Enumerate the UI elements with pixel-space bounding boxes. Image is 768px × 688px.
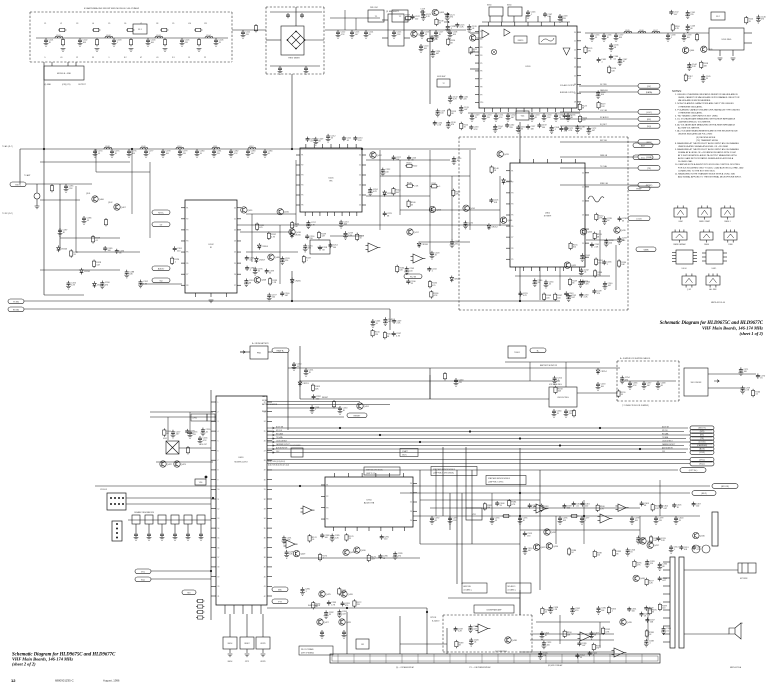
svg-text:4: 4 xyxy=(218,431,219,433)
capacitor C333 xyxy=(645,559,656,567)
svg-text:Q438: Q438 xyxy=(512,640,518,642)
wire xyxy=(246,649,248,653)
svg-text:220: 220 xyxy=(414,166,417,168)
resistor R127 xyxy=(70,249,79,257)
svg-text:C8: C8 xyxy=(156,23,158,25)
svg-text:15: 15 xyxy=(218,538,220,540)
svg-text:SPI CLK: SPI CLK xyxy=(662,430,668,432)
svg-text:TO RX (J1-7): TO RX (J1-7) xyxy=(2,213,13,215)
capacitor C114 xyxy=(364,30,375,38)
svg-text:P6: P6 xyxy=(186,263,188,265)
transistor Q423 xyxy=(174,461,187,467)
capacitor C171 xyxy=(564,126,574,132)
svg-text:.047: .047 xyxy=(647,385,651,387)
svg-text:470: 470 xyxy=(259,227,262,229)
package legend DIP U6 xyxy=(672,250,697,270)
svg-text:Q408: Q408 xyxy=(261,280,267,282)
capacitor C142 xyxy=(669,10,679,16)
capacitor C149 xyxy=(470,113,481,121)
svg-text:68: 68 xyxy=(450,42,452,44)
capacitor C107 xyxy=(286,13,290,18)
component block Y2 xyxy=(437,79,450,87)
svg-text:68: 68 xyxy=(387,215,389,217)
svg-text:220: 220 xyxy=(510,127,513,129)
resistor R145 xyxy=(406,182,419,187)
svg-text:BUFFER OUTPUT: BUFFER OUTPUT xyxy=(560,92,576,94)
svg-text:P9: P9 xyxy=(511,259,513,261)
svg-text:.047: .047 xyxy=(342,613,346,615)
svg-text:470: 470 xyxy=(585,284,588,286)
svg-text:20: 20 xyxy=(359,155,361,157)
wire xyxy=(291,271,293,301)
resistor R158 xyxy=(554,386,563,394)
capacitor C334 xyxy=(658,576,668,582)
diode CR207 xyxy=(255,257,266,264)
node (BD2) xyxy=(692,491,716,496)
ext jack xyxy=(738,563,756,573)
transistor Q426 xyxy=(341,591,354,597)
resistor R152 xyxy=(595,213,604,221)
wire mesh sheet2 left (interconnect mesh) xyxy=(150,412,213,462)
svg-text:CR209: CR209 xyxy=(454,279,461,281)
svg-text:.01: .01 xyxy=(297,366,300,368)
svg-text:68: 68 xyxy=(662,566,664,568)
capacitor C131 xyxy=(459,95,469,101)
wire junction dots xyxy=(43,148,641,613)
capacitor C215 xyxy=(303,244,314,252)
wire: bus TX DATA xyxy=(267,438,686,440)
svg-text:68: 68 xyxy=(322,249,324,251)
internal mixer circle xyxy=(491,49,496,54)
ground xyxy=(129,49,134,52)
resistor R130 xyxy=(291,221,300,229)
svg-text:FIRST MIXER: FIRST MIXER xyxy=(288,58,300,60)
resistor R160 xyxy=(186,446,189,454)
capacitor C278 xyxy=(320,630,325,638)
transistor Q412 xyxy=(370,152,383,158)
svg-text:P5: P5 xyxy=(511,215,513,217)
B+ jumper outline top xyxy=(617,360,679,362)
svg-text:P2: P2 xyxy=(186,219,188,221)
op-amp UU6 xyxy=(534,504,549,513)
U451 left pins xyxy=(211,402,247,598)
svg-text:.047: .047 xyxy=(582,645,586,647)
component block xyxy=(281,26,304,55)
sheet 1 title block xyxy=(660,321,764,336)
wire xyxy=(708,387,745,389)
svg-text:10. KEEP AS NOTE A SHUNT INTO: 10. KEEP AS NOTE A SHUNT INTO EXCLUDE CO… xyxy=(675,163,740,166)
svg-text:68: 68 xyxy=(387,336,389,338)
svg-text:.01: .01 xyxy=(249,260,252,262)
ground xyxy=(61,49,66,52)
component block xyxy=(184,515,192,524)
capacitor C299 xyxy=(654,516,665,524)
front-end module outline bottom xyxy=(30,61,232,63)
svg-text:20: 20 xyxy=(574,32,576,34)
svg-text:25: 25 xyxy=(234,263,236,265)
capacitor C297 xyxy=(580,516,591,524)
capacitor C328 xyxy=(548,605,559,613)
svg-text:KID: KID xyxy=(187,592,191,594)
svg-text:11: 11 xyxy=(218,499,220,501)
wire xyxy=(126,497,211,499)
svg-text:33: 33 xyxy=(630,552,632,554)
svg-text:U6 04: U6 04 xyxy=(682,268,687,270)
svg-text:68: 68 xyxy=(268,153,270,155)
resistor R108 xyxy=(435,18,444,26)
IC U201 RX BACK END xyxy=(296,144,366,216)
svg-text:.01: .01 xyxy=(549,284,552,286)
svg-text:U901 REG: U901 REG xyxy=(722,39,732,41)
capacitor C161 xyxy=(516,125,527,133)
capacitor C123 xyxy=(421,12,432,20)
svg-text:LOCK DETECT: LOCK DETECT xyxy=(662,440,673,442)
capacitor C118 xyxy=(448,30,459,38)
capacitor C230 xyxy=(532,278,543,286)
svg-text:100: 100 xyxy=(687,37,690,39)
capacitor C138 xyxy=(666,33,677,41)
svg-text:P7: P7 xyxy=(480,79,482,81)
component block xyxy=(132,515,140,524)
ground xyxy=(163,49,168,52)
svg-text:23: 23 xyxy=(574,58,576,60)
svg-text:470: 470 xyxy=(596,648,599,650)
svg-text:(CSX): (CSX) xyxy=(699,452,705,454)
connector strip P1 xyxy=(330,654,660,663)
capacitor C168 xyxy=(597,57,607,63)
svg-text:.047: .047 xyxy=(355,34,359,36)
svg-text:25: 25 xyxy=(574,75,576,77)
component block RESET xyxy=(240,637,254,649)
capacitor C113 xyxy=(350,30,361,38)
wire xyxy=(174,524,176,532)
svg-text:COL CNT: COL CNT xyxy=(200,444,207,446)
capacitor C182 xyxy=(229,149,240,157)
capacitor C167 xyxy=(617,57,628,65)
wire: bus SPI CLK xyxy=(267,431,684,433)
resistor R122 xyxy=(578,115,587,123)
svg-text:DEMOD: DEMOD xyxy=(518,40,525,42)
capacitor C108 xyxy=(300,13,304,18)
wire: bus VOL xyxy=(267,459,690,461)
RF section outline right xyxy=(627,137,629,310)
svg-text:470: 470 xyxy=(459,382,462,384)
svg-text:8.2: 8.2 xyxy=(124,57,127,59)
front-end component reference text xyxy=(44,23,207,59)
svg-text:MC68HC11-FL8: MC68HC11-FL8 xyxy=(235,462,248,464)
deemph title box xyxy=(474,605,514,613)
wire xyxy=(67,62,69,66)
svg-text:E1 ANTENNA VHF FRONT END MODU: E1 ANTENNA VHF FRONT END MODULE 146-174M… xyxy=(84,7,140,10)
svg-text:(TX) TRANSMIT MODE: (TX) TRANSMIT MODE xyxy=(696,139,719,142)
capacitor C292 xyxy=(430,516,441,524)
svg-text:470: 470 xyxy=(761,19,764,21)
svg-text:470: 470 xyxy=(185,42,188,44)
svg-text:100: 100 xyxy=(272,297,275,299)
svg-text:100: 100 xyxy=(542,127,545,129)
capacitor C153 xyxy=(530,113,541,121)
capacitor C296 xyxy=(558,516,569,524)
svg-text:Q415: Q415 xyxy=(504,154,510,156)
transistor Q410 xyxy=(277,209,290,215)
svg-text:CR213: CR213 xyxy=(302,383,309,385)
sheet 2 title block xyxy=(12,653,116,667)
svg-text:24: 24 xyxy=(359,195,361,197)
resistor R124 xyxy=(50,184,53,192)
svg-text:5. DC VOLTAGES ARE MEASURED W: 5. DC VOLTAGES ARE MEASURED WITH A HIGH … xyxy=(675,117,736,120)
svg-text:68: 68 xyxy=(597,236,599,238)
resistor R196 xyxy=(633,560,642,568)
resistor R136 xyxy=(430,290,439,298)
svg-text:B+ JUMPER FOR SHIPPED RADIOS: B+ JUMPER FOR SHIPPED RADIOS xyxy=(620,357,651,360)
node (OPT B+) xyxy=(680,468,706,473)
svg-text:.1: .1 xyxy=(607,264,609,266)
capacitor C320 xyxy=(469,638,480,646)
svg-text:Q439: Q439 xyxy=(627,622,633,624)
svg-text:25: 25 xyxy=(359,205,361,207)
capacitor C192 xyxy=(138,280,149,288)
svg-text:Y2: Y2 xyxy=(442,83,444,85)
svg-text:(sheet 2 of 2): (sheet 2 of 2) xyxy=(12,662,36,667)
svg-text:SQ DET: SQ DET xyxy=(600,124,608,126)
resistor R133 xyxy=(268,277,277,285)
capacitor C225 xyxy=(383,211,393,217)
svg-text:P9: P9 xyxy=(480,94,482,96)
diode CR213 xyxy=(298,380,309,387)
resistor R114 xyxy=(695,33,698,41)
capacitor C233 xyxy=(579,293,589,299)
svg-text:.1: .1 xyxy=(249,270,251,272)
svg-text:.01: .01 xyxy=(468,224,471,226)
capacitor C144 xyxy=(687,62,698,70)
transistor Q427 xyxy=(317,619,330,625)
component block xyxy=(166,441,179,454)
capacitor C294 xyxy=(490,516,501,524)
component block xyxy=(171,515,179,524)
svg-text:22: 22 xyxy=(359,175,361,177)
svg-text:F901: F901 xyxy=(257,352,261,354)
svg-text:33: 33 xyxy=(411,283,413,285)
resistor R131 xyxy=(256,222,265,230)
resistor R154 xyxy=(593,269,602,277)
IC U451 MICROCONTROLLER xyxy=(216,396,267,605)
svg-text:MEPS-48 101-46: MEPS-48 101-46 xyxy=(711,302,725,304)
node (DATA) xyxy=(638,90,660,95)
capacitor C121 xyxy=(445,13,456,21)
svg-text:33: 33 xyxy=(73,254,75,256)
capacitor C247 xyxy=(392,331,402,337)
capacitor C110 xyxy=(304,66,309,74)
svg-text:6: 6 xyxy=(218,450,219,452)
svg-text:.1: .1 xyxy=(601,61,603,63)
svg-text:CLOCK BUFF: CLOCK BUFF xyxy=(290,445,301,447)
svg-text:(CR) (CX): (CR) (CX) xyxy=(62,84,71,86)
resistor R111 xyxy=(469,46,478,54)
svg-text:Q419: Q419 xyxy=(621,230,627,232)
resistor R155 xyxy=(569,242,578,250)
capacitor C235 xyxy=(602,216,613,224)
component block U903 5V REG xyxy=(549,387,577,407)
svg-text:33: 33 xyxy=(200,153,202,155)
capacitor C326 xyxy=(577,641,587,647)
svg-text:.047: .047 xyxy=(528,550,532,552)
svg-text:33: 33 xyxy=(679,520,681,522)
node (RX) xyxy=(690,433,714,437)
svg-text:FL101: FL101 xyxy=(317,247,322,249)
svg-text:U102: U102 xyxy=(208,244,214,246)
capacitor C203 xyxy=(430,251,441,259)
wire: left vertical rail xyxy=(43,62,45,295)
inductor L105 xyxy=(624,30,632,33)
wire xyxy=(26,183,92,185)
inductor L102 xyxy=(105,35,113,38)
capacitor C179 xyxy=(178,149,189,157)
svg-text:220: 220 xyxy=(690,14,693,16)
svg-text:23: 23 xyxy=(234,241,236,243)
svg-text:100: 100 xyxy=(108,250,111,252)
capacitor C339 xyxy=(644,606,654,612)
capacitor C306 xyxy=(528,503,538,509)
bus arrowhead xyxy=(272,437,274,439)
B+ jumper outline bottom xyxy=(617,400,679,402)
svg-text:C6: C6 xyxy=(124,23,126,25)
svg-text:33: 33 xyxy=(269,273,271,275)
svg-text:(10M MEGOHM) DC VOLTMETER.: (10M MEGOHM) DC VOLTMETER. xyxy=(678,122,711,124)
svg-text:OPTION: OPTION xyxy=(430,617,437,619)
svg-text:.1: .1 xyxy=(450,28,452,30)
wire xyxy=(519,267,521,301)
svg-text:AUDIO: AUDIO xyxy=(158,267,165,270)
svg-text:P4: P4 xyxy=(186,241,188,243)
svg-text:CR205: CR205 xyxy=(295,281,302,283)
svg-text:.01: .01 xyxy=(495,520,498,522)
resistor R135 xyxy=(428,280,437,288)
component block MODULE - GND xyxy=(44,66,84,80)
component block U751 xyxy=(466,508,482,520)
resistor R102 xyxy=(95,38,98,46)
transistor Q430 xyxy=(354,547,367,553)
wire xyxy=(187,524,189,532)
svg-text:(CHG): (CHG) xyxy=(193,418,198,420)
capacitor C250 xyxy=(292,362,303,370)
svg-text:.01: .01 xyxy=(87,220,90,222)
vertical wires from IC top xyxy=(489,16,491,22)
svg-text:LOC GB: LOC GB xyxy=(600,110,608,112)
capacitor C274 xyxy=(160,532,165,540)
RF section outline bottom xyxy=(459,309,628,311)
svg-text:24: 24 xyxy=(410,520,412,522)
U451 bottom pins xyxy=(225,605,261,614)
svg-text:33: 33 xyxy=(329,614,331,616)
capacitor C329 xyxy=(640,612,650,618)
component block FL101 xyxy=(310,240,330,254)
mixer bridge diode dots xyxy=(295,31,297,33)
svg-text:6. AC VOLTAGES ARE MEASURED W: 6. AC VOLTAGES ARE MEASURED WITH A HIGH … xyxy=(675,124,736,127)
wire xyxy=(519,122,521,137)
wire mesh bottom audio (interconnect mesh) xyxy=(448,590,648,648)
svg-text:.1: .1 xyxy=(305,591,307,593)
svg-text:P8: P8 xyxy=(186,285,188,287)
node (AUX) xyxy=(690,447,714,451)
svg-text:CONNECTED TO THE EXT TEST BOX.: CONNECTED TO THE EXT TEST BOX. xyxy=(678,170,716,172)
svg-text:33: 33 xyxy=(264,509,266,511)
capacitor C236 xyxy=(602,260,612,266)
svg-text:30: 30 xyxy=(264,479,266,481)
node (DMB) xyxy=(638,155,660,160)
capacitor C129 xyxy=(435,109,446,117)
svg-text:August, 1996: August, 1996 xyxy=(103,679,120,683)
svg-text:3: 3 xyxy=(218,421,219,423)
wire xyxy=(75,62,77,66)
capacitor C289 xyxy=(393,551,404,559)
capacitor C310 xyxy=(523,546,534,554)
svg-text:21: 21 xyxy=(574,41,576,43)
svg-text:.1: .1 xyxy=(585,257,587,259)
capacitor C112 xyxy=(336,30,347,38)
wire xyxy=(400,492,690,494)
op-amp UU8 xyxy=(616,504,629,511)
svg-text:U903 5V REG: U903 5V REG xyxy=(557,397,569,399)
svg-text:.01: .01 xyxy=(688,78,691,80)
wire xyxy=(44,294,84,296)
svg-text:20: 20 xyxy=(234,207,236,209)
wire xyxy=(684,633,729,635)
svg-text:.1: .1 xyxy=(117,42,119,44)
capacitor C209 xyxy=(313,137,324,145)
resistor R129 xyxy=(91,235,100,243)
svg-text:220: 220 xyxy=(609,242,612,244)
svg-text:AUDIO GAIN SET FOR RATED 500MW: AUDIO GAIN SET FOR RATED 500MW AUDIO ACR… xyxy=(678,157,734,160)
package legend symbol xyxy=(724,230,737,247)
capacitor C184 xyxy=(263,149,274,157)
svg-text:470: 470 xyxy=(564,130,567,132)
svg-text:L4: L4 xyxy=(92,23,94,25)
capacitor C178 xyxy=(161,149,172,157)
svg-text:VHF Main Boards, 146-174 MHz: VHF Main Boards, 146-174 MHz xyxy=(702,326,763,331)
component block Y2 xyxy=(392,10,408,22)
capacitor C127 xyxy=(430,35,440,41)
reference squiggle xyxy=(588,196,604,202)
resistor R176 xyxy=(345,533,354,541)
resistor R140 xyxy=(490,165,499,173)
svg-text:Q427: Q427 xyxy=(324,622,330,624)
capacitor C262 xyxy=(312,394,322,400)
wire xyxy=(262,614,264,637)
svg-text:Q421: Q421 xyxy=(571,265,577,267)
svg-text:100: 100 xyxy=(325,537,328,539)
svg-text:220: 220 xyxy=(463,99,466,101)
svg-text:470: 470 xyxy=(575,610,578,612)
svg-text:33: 33 xyxy=(621,394,623,396)
svg-text:20: 20 xyxy=(582,173,584,175)
wire xyxy=(684,569,738,571)
deemph outline right xyxy=(531,615,533,652)
resistor R192 xyxy=(602,627,611,635)
svg-text:220: 220 xyxy=(285,260,288,262)
node PTT xyxy=(272,599,288,604)
capacitor C173 xyxy=(563,113,573,119)
board edge connector bar 2 xyxy=(679,557,684,648)
svg-text:33: 33 xyxy=(500,505,502,507)
svg-text:.047: .047 xyxy=(674,14,678,16)
capacitor C175 xyxy=(110,149,121,157)
svg-text:LOCK DETECT: LOCK DETECT xyxy=(276,440,287,442)
svg-text:Q452 MMBT3906: Q452 MMBT3906 xyxy=(495,651,507,653)
capacitor C135 xyxy=(590,33,601,41)
wire xyxy=(59,184,61,250)
capacitor C253 xyxy=(596,382,607,390)
transistor Q425 xyxy=(319,591,332,597)
